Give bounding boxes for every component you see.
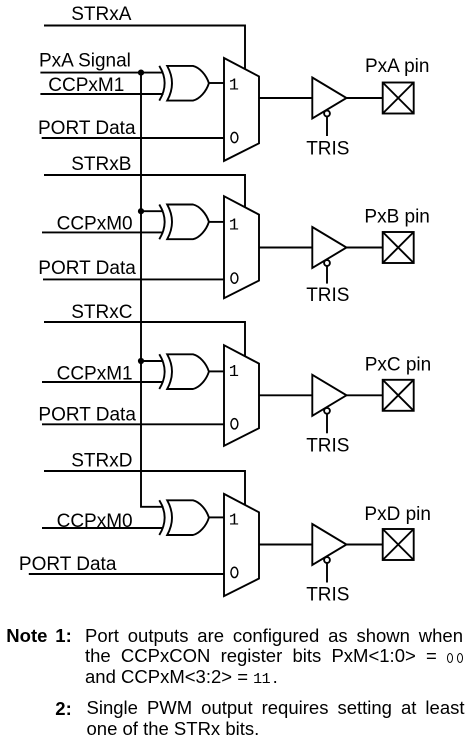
svg-text:PxC pin: PxC pin bbox=[365, 355, 432, 376]
svg-text:PxB pin: PxB pin bbox=[364, 206, 429, 227]
svg-text:PORT Data: PORT Data bbox=[38, 405, 136, 426]
svg-text:TRIS: TRIS bbox=[306, 138, 349, 159]
svg-text:1: 1 bbox=[229, 512, 239, 531]
svg-text:CCPxM0: CCPxM0 bbox=[57, 511, 133, 532]
svg-text:PORT Data: PORT Data bbox=[38, 118, 136, 139]
svg-text:1: 1 bbox=[229, 217, 239, 236]
svg-text:CCPxM1: CCPxM1 bbox=[48, 75, 124, 96]
svg-text:TRIS: TRIS bbox=[306, 285, 349, 306]
svg-text:PxA Signal: PxA Signal bbox=[39, 51, 131, 72]
svg-text:PxA pin: PxA pin bbox=[365, 56, 429, 77]
svg-text:CCPxM0: CCPxM0 bbox=[57, 213, 133, 234]
svg-text:CCPxM1: CCPxM1 bbox=[57, 363, 133, 384]
svg-text:TRIS: TRIS bbox=[306, 435, 349, 456]
svg-text:1: 1 bbox=[229, 363, 239, 382]
svg-text:PxD pin: PxD pin bbox=[364, 504, 431, 525]
svg-text:STRxB: STRxB bbox=[71, 154, 131, 175]
svg-text:PORT Data: PORT Data bbox=[38, 258, 136, 279]
svg-text:STRxA: STRxA bbox=[71, 4, 132, 25]
svg-text:PORT Data: PORT Data bbox=[19, 554, 117, 575]
svg-text:STRxC: STRxC bbox=[71, 302, 132, 323]
svg-text:1: 1 bbox=[229, 77, 239, 96]
svg-text:TRIS: TRIS bbox=[306, 584, 349, 605]
svg-text:STRxD: STRxD bbox=[71, 450, 132, 471]
